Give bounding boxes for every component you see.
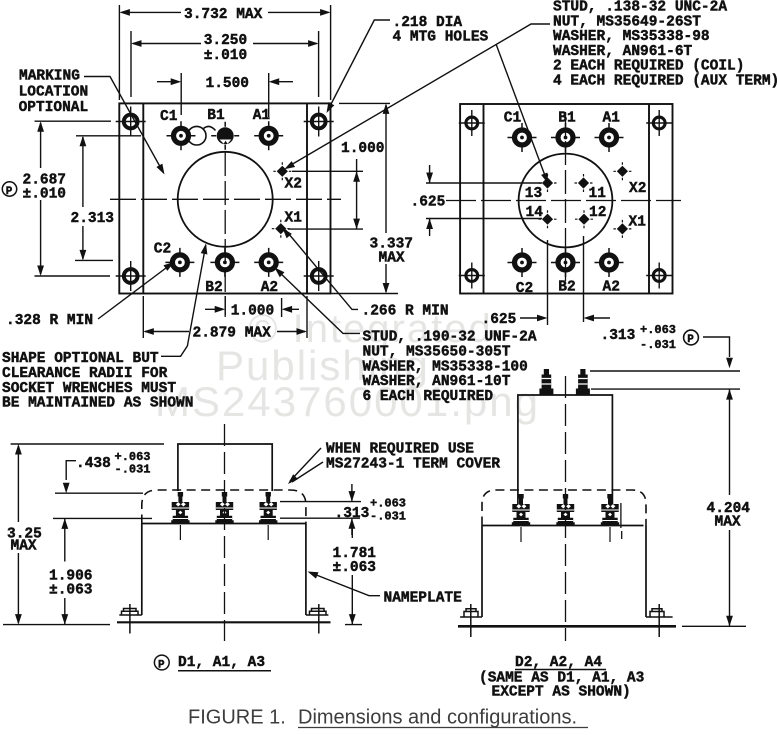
side view D1: body sides: [142, 524, 306, 616]
svg-text:.313: .313: [335, 506, 370, 522]
right view terminal A2: [595, 248, 624, 277]
dim 4.204 MAX: [682, 389, 746, 626]
center line vertical left view: [224, 152, 226, 317]
svg-text:A1: A1: [253, 108, 271, 124]
svg-text:3.732 MAX: 3.732 MAX: [184, 7, 263, 23]
right view mounting hole bottom-left: [459, 263, 485, 289]
dim 2.313: [75, 136, 141, 261]
svg-text:.625: .625: [411, 195, 446, 211]
dim .313 right of studs: [280, 484, 361, 535]
leader shape-optional to center hole: [161, 245, 206, 356]
side view D2: terminal stud A: [601, 494, 619, 526]
dim .625 below right view: [520, 236, 610, 325]
dim 1.000 vertical right of left view: [288, 159, 363, 229]
svg-text:SOCKET WRENCHES MUST: SOCKET WRENCHES MUST: [2, 381, 176, 397]
coil pin 11: [575, 174, 593, 192]
center line horizontal left view: [110, 198, 341, 200]
svg-text:+.063: +.063: [370, 497, 406, 511]
svg-text:A2: A2: [261, 280, 278, 296]
svg-text:P: P: [6, 186, 13, 198]
side view D1: terminal stud C: [171, 492, 189, 524]
svg-text:Dimensions and configurations.: Dimensions and configurations.: [298, 707, 577, 729]
svg-text:WASHER, MS35338-98: WASHER, MS35338-98: [553, 29, 710, 45]
svg-text:B2: B2: [558, 280, 575, 296]
svg-text:±.063: ±.063: [333, 560, 377, 576]
svg-text:X2: X2: [285, 177, 302, 193]
wrench clearance circle at C1: [187, 126, 206, 145]
svg-text:B1: B1: [558, 111, 576, 127]
side view D2: upper body: [518, 395, 613, 526]
leader term cover: [290, 448, 323, 482]
svg-text:2.313: 2.313: [71, 211, 115, 227]
side view D2: center line: [565, 376, 567, 641]
svg-text:12: 12: [589, 205, 606, 221]
svg-text:1.000: 1.000: [341, 141, 385, 157]
svg-text:-.031: -.031: [640, 338, 676, 352]
coil pin 13: [539, 174, 557, 192]
svg-text:11: 11: [589, 186, 607, 202]
right view mounting hole bottom-right: [646, 263, 672, 289]
side view D2: terminal stud C: [512, 494, 530, 526]
dim 1.500: [157, 73, 293, 117]
svg-text:6 EACH REQUIRED: 6 EACH REQUIRED: [363, 389, 494, 405]
terminal A1: [254, 121, 283, 150]
right view mounting hole top-right: [646, 110, 672, 136]
dim 3.732 MAX: [119, 5, 330, 100]
svg-text:C2: C2: [516, 281, 533, 297]
svg-text:WHEN REQUIRED USE: WHEN REQUIRED USE: [326, 442, 474, 458]
side view D1: terminal stud B: [215, 492, 233, 524]
svg-text:A2: A2: [603, 280, 620, 296]
svg-text:NAMEPLATE: NAMEPLATE: [384, 591, 463, 607]
right view aux terminal X1: [613, 220, 631, 238]
leader .218 to mounting hole: [328, 20, 391, 111]
svg-text:.313: .313: [601, 328, 636, 344]
side view D2: stud hidden lines below body top: [521, 527, 610, 542]
svg-text:4 MTG HOLES: 4 MTG HOLES: [393, 30, 489, 46]
terminal C1: [167, 121, 196, 150]
svg-text:C1: C1: [504, 111, 522, 127]
aux terminal X2: [273, 162, 291, 180]
mounting hole bottom-right: [304, 261, 334, 291]
leader marking to flange face: [84, 77, 163, 173]
dim 1.000 bottom: [205, 296, 299, 317]
leader stud.190 to A2: [276, 269, 360, 333]
svg-text:FIGURE 1.: FIGURE 1.: [188, 707, 286, 729]
mounting hole top-right: [304, 107, 334, 137]
leader branch to pin 13: [496, 44, 547, 181]
right view terminal C2: [508, 248, 537, 277]
right view terminal B1: [551, 123, 580, 152]
svg-text:MARKING: MARKING: [19, 69, 80, 85]
svg-text:+.063: +.063: [640, 323, 676, 337]
svg-text:BE MAINTAINED AS SHOWN: BE MAINTAINED AS SHOWN: [2, 396, 193, 412]
side view D2: body sides: [482, 526, 646, 618]
svg-text:.266 R MIN: .266 R MIN: [362, 304, 449, 320]
leader stud list to X2: [288, 24, 551, 167]
svg-text:C1: C1: [160, 109, 178, 125]
svg-text:WASHER, AN961-6T: WASHER, AN961-6T: [553, 44, 693, 60]
right view center line horizontal: [446, 200, 681, 202]
left view fold line right: [306, 103, 308, 293]
svg-text:2.879 MAX: 2.879 MAX: [193, 326, 272, 342]
right view center hole circle: [519, 154, 613, 248]
terminal B1 (filled): [211, 122, 239, 150]
svg-text:B1: B1: [207, 108, 225, 124]
side view D2: base and feet: [460, 616, 672, 618]
caption D1 A1 A3: [154, 655, 169, 671]
side view D1: body top line: [142, 523, 306, 525]
svg-text:D2, A2, A4: D2, A2, A4: [515, 655, 602, 671]
side view D1: base and feet: [119, 614, 328, 616]
svg-text:X2: X2: [629, 181, 646, 197]
dim 3.337 MAX: [332, 103, 399, 293]
right view terminal B2: [551, 248, 580, 277]
dim 1.906: [64, 518, 66, 624]
svg-text:X1: X1: [629, 215, 647, 231]
svg-text:MAX: MAX: [11, 539, 37, 555]
terminal C2: [165, 248, 194, 277]
svg-text:.625: .625: [482, 312, 517, 328]
datum symbol P left: [2, 182, 16, 198]
svg-text:±.010: ±.010: [23, 187, 67, 203]
aux terminal X1: [272, 220, 290, 238]
right view mounting hole top-left: [459, 110, 485, 136]
terminal A2: [254, 248, 283, 277]
svg-text:D1, A1, A3: D1, A1, A3: [178, 655, 265, 671]
svg-text:1.000: 1.000: [231, 304, 275, 320]
svg-text:B2: B2: [205, 280, 222, 296]
svg-text:P: P: [158, 659, 165, 671]
side view D1: terminal stud A: [259, 492, 277, 524]
svg-text:SHAPE OPTIONAL BUT: SHAPE OPTIONAL BUT: [2, 351, 159, 367]
dim .313 stud caps: [726, 389, 733, 400]
side view D1: dashed cover outline: [142, 490, 306, 524]
right view fold line left: [483, 104, 485, 294]
svg-text:±.063: ±.063: [49, 583, 93, 599]
svg-text:A1: A1: [603, 111, 621, 127]
svg-text:MAX: MAX: [379, 251, 405, 267]
coil pin 12: [575, 210, 593, 228]
svg-text:OPTIONAL: OPTIONAL: [19, 100, 89, 116]
note MARKING LOCATION OPTIONAL: [19, 69, 89, 117]
dim 3.250 +-.010: [131, 31, 319, 97]
terminal B2: [210, 248, 239, 277]
right view terminal C1: [508, 123, 537, 152]
svg-text:3.250: 3.250: [204, 33, 248, 49]
svg-text:MAX: MAX: [715, 515, 741, 531]
side view D2: coil terminal cap 2: [576, 369, 590, 395]
right view center line vertical: [565, 112, 567, 290]
side view D2: coil terminal cap 1: [539, 369, 553, 395]
svg-text:CLEARANCE RADII FOR: CLEARANCE RADII FOR: [2, 366, 168, 382]
dim 2.879 MAX: [143, 296, 307, 338]
svg-text:LOCATION: LOCATION: [19, 84, 89, 100]
right view terminal A1: [595, 123, 624, 152]
svg-text:.438: .438: [76, 456, 111, 472]
side view D1: center line: [224, 424, 226, 641]
svg-text:EXCEPT AS SHOWN): EXCEPT AS SHOWN): [492, 685, 631, 701]
svg-text:±.010: ±.010: [204, 48, 248, 64]
svg-text:STUD, .138-32 UNC-2A: STUD, .138-32 UNC-2A: [553, 0, 727, 16]
side view D2: lower body top line: [482, 525, 644, 527]
side view D2: cap extension lines: [590, 371, 740, 389]
right view aux terminal X2: [613, 162, 631, 180]
center hole circle: [178, 152, 273, 247]
svg-text:13: 13: [525, 186, 542, 202]
side view D2: terminal stud B: [556, 494, 574, 526]
note stud .190-32 hardware list: [363, 330, 537, 405]
left view fold line left: [142, 103, 144, 293]
mounting hole top-left: [116, 107, 146, 137]
dim .625 left of right view: [426, 165, 542, 236]
svg-text:-.031: -.031: [115, 463, 151, 477]
wrench clearance arc at B1: [204, 126, 216, 130]
svg-text:X1: X1: [285, 211, 303, 227]
mounting hole bottom-left: [116, 261, 146, 291]
svg-text:STUD, .190-32 UNF-2A: STUD, .190-32 UNF-2A: [363, 330, 537, 346]
right flange view outline: [460, 104, 672, 294]
coil pin 14: [539, 210, 557, 228]
watermark: [155, 307, 540, 425]
svg-text:NUT, MS35649-26ST: NUT, MS35649-26ST: [553, 14, 701, 30]
dim 2.687 +-.010: [35, 121, 112, 276]
svg-text:NUT, MS35650-305T: NUT, MS35650-305T: [363, 345, 511, 361]
note SHAPE OPTIONAL: [2, 351, 193, 411]
svg-text:WASHER, AN961-10T: WASHER, AN961-10T: [363, 374, 511, 390]
svg-text:C2: C2: [154, 241, 171, 257]
svg-text:MS27243-1 TERM COVER: MS27243-1 TERM COVER: [326, 457, 500, 473]
svg-text:P: P: [687, 334, 694, 346]
side view D2: dashed cover outline: [482, 490, 646, 526]
side view D1: stud hidden lines below body top: [180, 525, 268, 540]
note stud .138-32 hardware list: [553, 0, 777, 90]
svg-text:-.031: -.031: [370, 510, 406, 524]
extension lines left of studs: [53, 493, 152, 518]
dim 3.25 MAX: [3, 444, 164, 625]
svg-text:1.500: 1.500: [206, 76, 250, 92]
right view fold line right: [648, 104, 650, 294]
left flange view outline: [119, 103, 330, 293]
leader datum P to stud cap dim: [703, 337, 730, 357]
side view D2: stud A extension line: [620, 503, 623, 539]
side view D1: term cover box: [178, 444, 272, 491]
svg-text:4 EACH REQUIRED (AUX TERM): 4 EACH REQUIRED (AUX TERM): [553, 74, 777, 90]
dim 1.781: [345, 528, 362, 625]
svg-text:WASHER, MS35338-100: WASHER, MS35338-100: [363, 359, 528, 375]
svg-text:.328 R MIN: .328 R MIN: [6, 313, 93, 329]
svg-text:2 EACH REQUIRED (COIL): 2 EACH REQUIRED (COIL): [553, 59, 744, 75]
